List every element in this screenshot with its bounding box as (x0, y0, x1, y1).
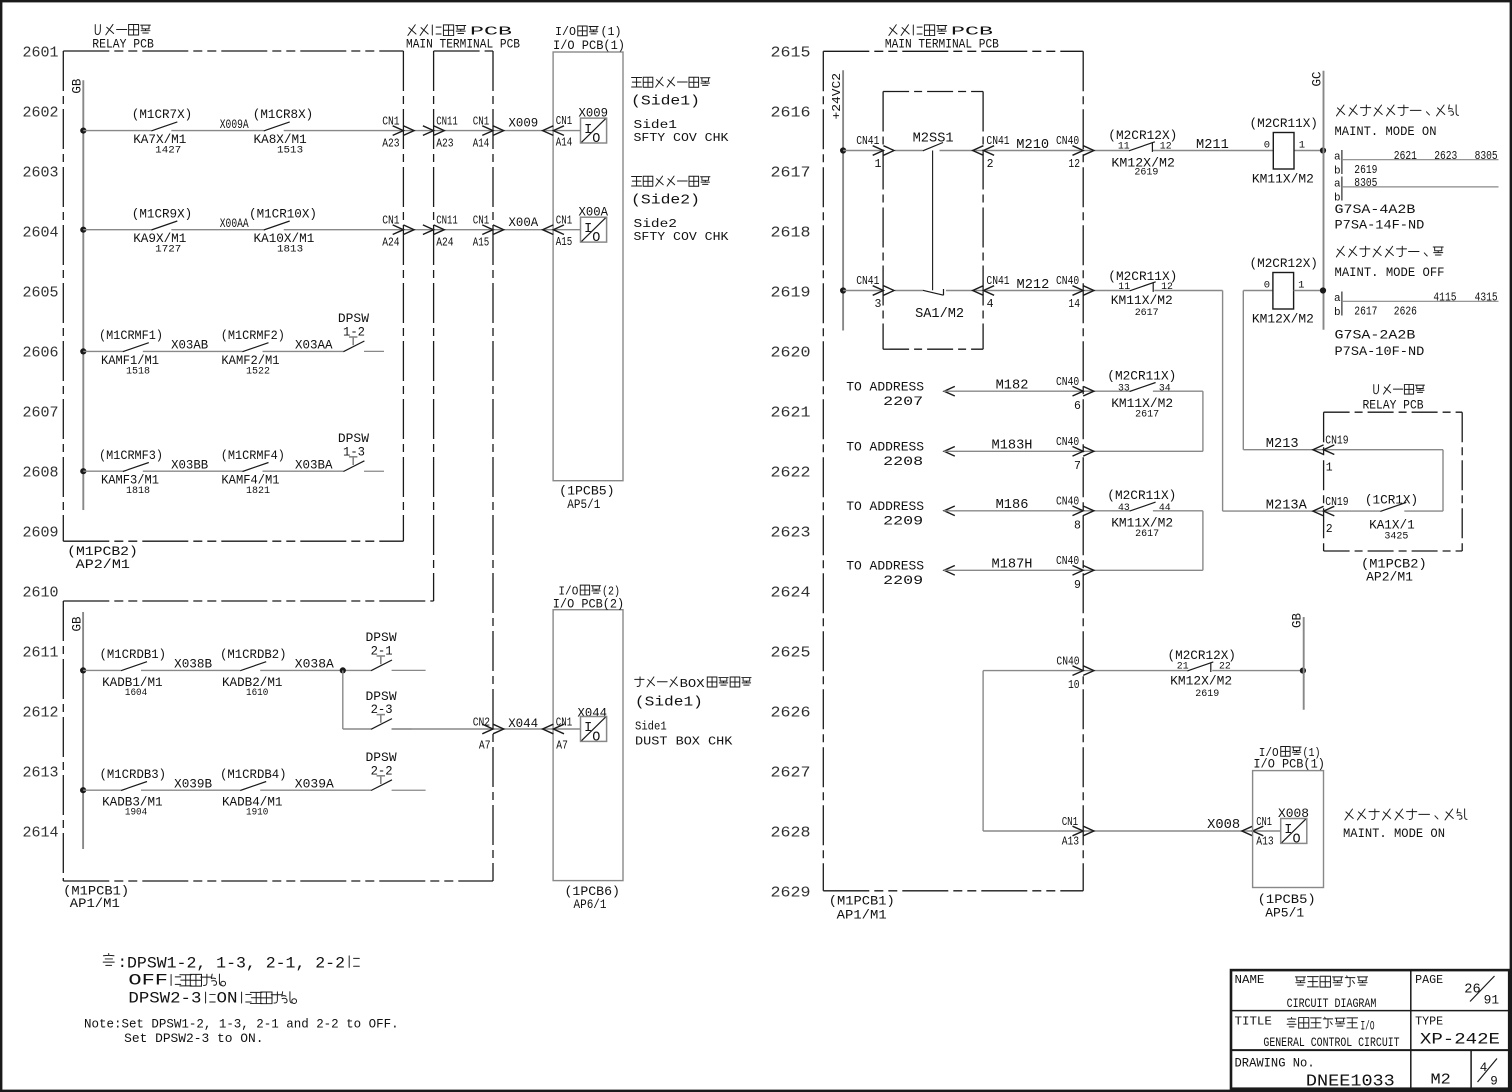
ground bus GC (1311, 71, 1325, 330)
svg-text:(1CR1X): (1CR1X) (1365, 493, 1418, 508)
relay contact KADB1/M1 (M1CRDB1) (100, 647, 167, 699)
svg-text:2613: 2613 (23, 765, 59, 782)
svg-text:1910: 1910 (246, 807, 268, 819)
svg-text:P7SA-10F-ND: P7SA-10F-ND (1335, 344, 1425, 359)
annotation TO ADDRESS 2208 (846, 440, 924, 469)
svg-text:0: 0 (1264, 140, 1270, 152)
wire net row F (83, 789, 371, 791)
svg-text:CN2: CN2 (473, 717, 490, 730)
annotation safety cover check Side2 (631, 176, 729, 244)
annotation maintenance mode on (1335, 105, 1459, 139)
svg-text:10: 10 (1068, 679, 1080, 692)
svg-text:4: 4 (1480, 1061, 1488, 1075)
svg-text:KM12X/M2: KM12X/M2 (1170, 673, 1232, 688)
ground bus GB right (1291, 612, 1305, 709)
svg-text:2621: 2621 (771, 405, 811, 422)
svg-text:Side1: Side1 (634, 118, 678, 132)
svg-text:GENERAL CONTROL CIRCUIT: GENERAL CONTROL CIRCUIT (1263, 1035, 1399, 1050)
svg-text:X00A: X00A (509, 215, 539, 230)
svg-text:2602: 2602 (23, 105, 59, 122)
svg-text:CN1: CN1 (473, 115, 490, 128)
connector CN41-4 (973, 275, 1010, 311)
I/O module X00A (579, 205, 609, 246)
svg-text:(M1CRDB3): (M1CRDB3) (100, 767, 167, 782)
relay contact KA7X/M1 (M1CR7X) (132, 107, 192, 156)
svg-text:b: b (1334, 307, 1341, 319)
connector CN2-A7 (473, 717, 504, 753)
svg-text:O: O (592, 730, 600, 745)
svg-text:X03AA: X03AA (295, 338, 333, 353)
svg-text:CN40: CN40 (1056, 655, 1079, 668)
svg-text:GC: GC (1311, 71, 1325, 86)
relay contact KM11X/M2 pins 11-12 (M2CR11X) (1108, 269, 1177, 319)
I/O module X044 (578, 706, 608, 746)
connector CN1 into I/O PCB row A (543, 115, 573, 150)
svg-text:(M1CR9X): (M1CR9X) (132, 206, 192, 221)
svg-text:2617: 2617 (771, 165, 811, 182)
svg-text:a: a (1334, 178, 1341, 190)
row scale numbers 2601-2614 (23, 45, 59, 842)
svg-text:(1): (1) (601, 25, 622, 39)
svg-text:2209: 2209 (883, 573, 923, 588)
svg-text:2626: 2626 (771, 705, 811, 722)
svg-text:2603: 2603 (23, 165, 59, 182)
svg-text:GB: GB (1291, 612, 1305, 628)
svg-text:G7SA-4A2B: G7SA-4A2B (1335, 202, 1416, 217)
svg-text:(M1CRMF1): (M1CRMF1) (99, 328, 163, 343)
I/O PCB(1) board box left (553, 25, 625, 512)
svg-text:CN40: CN40 (1056, 436, 1079, 449)
svg-text:M213: M213 (1266, 437, 1299, 452)
svg-text:A23: A23 (436, 137, 453, 150)
wire M182 to address 2207 (944, 386, 1203, 396)
annotation safety cover check Side1 (631, 77, 729, 145)
annotation dust box check (635, 677, 751, 748)
svg-text:X03BB: X03BB (171, 457, 208, 472)
wire M213A net (1223, 510, 1443, 512)
svg-text:CN41: CN41 (986, 135, 1009, 148)
svg-text:MAIN TERMINAL PCB: MAIN TERMINAL PCB (885, 38, 999, 52)
svg-text:A23: A23 (382, 137, 399, 150)
wire X00AA net segments (83, 229, 580, 231)
svg-text:2208: 2208 (883, 454, 923, 469)
connector CN40-14 (1056, 275, 1094, 311)
svg-text:AP6/1: AP6/1 (574, 897, 607, 912)
wire X008 net (983, 830, 1281, 832)
svg-text:AP1/M1: AP1/M1 (70, 896, 120, 911)
svg-text:I/O PCB(1): I/O PCB(1) (553, 39, 625, 53)
I/O module X009 (579, 106, 609, 147)
relay contact KA8X/M1 (M1CR8X) (253, 107, 313, 156)
relay part number G7SA-4A2B (1335, 202, 1425, 233)
svg-text:CN41: CN41 (856, 135, 879, 148)
wire M187H to address 2209 (944, 566, 1203, 576)
svg-text:DRAWING No.: DRAWING No. (1235, 1056, 1315, 1070)
selector switch M2SS1 blade (913, 132, 954, 291)
wire M212 net row 2619 (843, 291, 1223, 512)
svg-text:I: I (584, 123, 592, 138)
svg-text:(M1CR10X): (M1CR10X) (249, 206, 317, 221)
svg-text:TO ADDRESS: TO ADDRESS (846, 559, 924, 574)
node GB junction right (1300, 668, 1306, 674)
svg-text:P7SA-14F-ND: P7SA-14F-ND (1335, 217, 1425, 232)
svg-text:O: O (1293, 832, 1301, 847)
wire link address rows 3-4 (1202, 511, 1204, 571)
node GC junction row 2617 (1320, 147, 1326, 153)
svg-text:8305: 8305 (1354, 176, 1377, 190)
svg-text:M186: M186 (996, 498, 1029, 513)
svg-text:(M1CRDB1): (M1CRDB1) (100, 647, 167, 662)
svg-text:CN19: CN19 (1325, 434, 1348, 447)
svg-text:(M2CR11X): (M2CR11X) (1107, 488, 1176, 503)
svg-text:3: 3 (875, 298, 882, 311)
svg-text:PCB: PCB (951, 26, 993, 39)
svg-text:2623: 2623 (771, 525, 811, 542)
svg-text:A7: A7 (556, 739, 568, 752)
svg-text:G7SA-2A2B: G7SA-2A2B (1335, 328, 1416, 343)
svg-text:CN40: CN40 (1056, 376, 1079, 389)
svg-text:1818: 1818 (126, 485, 150, 497)
wire M213 net (1243, 450, 1443, 511)
svg-text:CN40: CN40 (1056, 555, 1079, 568)
svg-text:Note:Set DPSW1-2, 1-3, 2-1 and: Note:Set DPSW1-2, 1-3, 2-1 and 2-2 to OF… (84, 1017, 399, 1031)
svg-text:KM11X/M2: KM11X/M2 (1252, 172, 1314, 187)
svg-text:CN40: CN40 (1056, 496, 1079, 509)
svg-text:I/O: I/O (555, 25, 576, 39)
note text english (84, 1017, 399, 1046)
relay contact KA10X/M1 (M1CR10X) (249, 206, 317, 255)
svg-text:M213A: M213A (1266, 499, 1308, 514)
node GB junction row X009 (80, 128, 86, 134)
svg-text:2616: 2616 (771, 105, 811, 122)
svg-text:2628: 2628 (771, 825, 811, 842)
svg-text:4315: 4315 (1475, 290, 1498, 304)
svg-text:DUST BOX CHK: DUST BOX CHK (635, 734, 733, 748)
svg-text:2207: 2207 (883, 394, 923, 409)
svg-text:(M1CRDB4): (M1CRDB4) (220, 767, 287, 782)
svg-text:1522: 1522 (246, 365, 270, 377)
svg-text:2625: 2625 (771, 645, 811, 662)
svg-text:SFTY COV CHK: SFTY COV CHK (634, 230, 730, 244)
svg-text:1513: 1513 (277, 145, 303, 157)
svg-text:AP1/M1: AP1/M1 (837, 908, 887, 923)
connector CN40-10 (1056, 655, 1094, 692)
svg-text:1610: 1610 (246, 687, 268, 699)
node +24VC2 junction row 2619 (840, 287, 846, 293)
annotation maintenance mode on lower (1343, 809, 1467, 841)
svg-text:O: O (592, 132, 600, 147)
svg-text:KM11X/M2: KM11X/M2 (1111, 293, 1173, 308)
svg-text:A13: A13 (1062, 836, 1079, 849)
svg-text:(Side1): (Side1) (635, 696, 703, 711)
svg-text:SFTY COV CHK: SFTY COV CHK (634, 131, 730, 145)
svg-text:6: 6 (1074, 400, 1081, 413)
svg-text:2609: 2609 (23, 525, 59, 542)
svg-text:+24VC2: +24VC2 (830, 73, 844, 120)
svg-text:4115: 4115 (1433, 290, 1456, 304)
svg-text:2618: 2618 (771, 225, 811, 242)
relay contact KA1X/1 (1CR1X) (1365, 493, 1418, 543)
connector CN1-A13 (terminal pcb) (1062, 816, 1094, 849)
svg-text:(2): (2) (602, 585, 620, 598)
cross reference table mode off (1334, 290, 1499, 318)
svg-text:2607: 2607 (23, 405, 59, 422)
svg-text:AP2/M1: AP2/M1 (76, 557, 130, 572)
svg-text:I/O PCB(2): I/O PCB(2) (553, 598, 624, 612)
annotation TO ADDRESS 2209 (846, 559, 924, 588)
connector CN1-A7 into I/O PCB(2) (543, 717, 573, 753)
svg-text:21: 21 (1177, 661, 1189, 673)
svg-text:X044: X044 (578, 706, 608, 721)
relay contact KAMF3/M1 (M1CRMF3) (99, 448, 163, 497)
svg-text:1604: 1604 (125, 687, 147, 699)
svg-text:1: 1 (875, 158, 882, 171)
svg-text:2617: 2617 (1135, 409, 1159, 421)
svg-text:8: 8 (1074, 520, 1081, 533)
svg-text:12: 12 (1161, 281, 1173, 293)
connector CN1 into I/O PCB row B (543, 214, 573, 249)
connector CN40-7 (1056, 436, 1094, 473)
connector CN19-2 (1313, 496, 1349, 536)
wire M186 to address 2209 (944, 506, 1203, 516)
svg-text:GB: GB (71, 78, 85, 94)
svg-text:M2: M2 (1431, 1071, 1451, 1088)
svg-text:PAGE: PAGE (1415, 973, 1443, 987)
svg-text:(M1CRMF4): (M1CRMF4) (221, 448, 285, 463)
PCB boundary MAIN TERMINAL PCB right box (823, 25, 1083, 923)
svg-text:2619: 2619 (771, 285, 811, 302)
svg-text:MAINT. MODE ON: MAINT. MODE ON (1343, 826, 1445, 841)
svg-text:CN1: CN1 (556, 115, 572, 128)
connector CN1-A14/A15 row B (473, 215, 504, 250)
svg-text:2617: 2617 (1354, 305, 1377, 319)
svg-text:CN1: CN1 (473, 215, 490, 228)
svg-text:12: 12 (1068, 158, 1080, 171)
svg-text:AP5/1: AP5/1 (567, 497, 600, 512)
svg-text:M187H: M187H (992, 558, 1033, 573)
svg-text:CN11: CN11 (436, 215, 458, 228)
svg-text:44: 44 (1159, 502, 1171, 514)
connector CN40-9 (1056, 555, 1094, 592)
connector CN1-A13 into I/O PCB(1) (1242, 816, 1274, 849)
svg-text:26: 26 (1464, 983, 1480, 998)
I/O PCB(1) board box right (1253, 746, 1325, 920)
svg-text:TITLE: TITLE (1235, 1015, 1272, 1029)
svg-text:TO ADDRESS: TO ADDRESS (846, 499, 924, 514)
svg-text:TO ADDRESS: TO ADDRESS (846, 380, 924, 395)
relay contact KADB2/M1 (M1CRDB2) (220, 647, 287, 699)
svg-text:2623: 2623 (1434, 149, 1457, 163)
svg-text:91: 91 (1484, 993, 1500, 1007)
svg-text:RELAY PCB: RELAY PCB (92, 38, 154, 52)
connector CN1-A23/A24 row B (382, 215, 414, 250)
svg-text:2605: 2605 (23, 285, 59, 302)
connector CN41-1 (856, 135, 894, 171)
wire X044 net (343, 728, 581, 730)
svg-text:MAINT. MODE ON: MAINT. MODE ON (1335, 124, 1437, 139)
connector CN40-6 (1056, 376, 1094, 413)
connector CN41-2 (973, 135, 1010, 171)
svg-text:(M1CRDB2): (M1CRDB2) (220, 647, 287, 662)
node GB junction row E (80, 667, 86, 673)
svg-text:I: I (584, 721, 592, 736)
svg-text:9: 9 (1074, 579, 1081, 592)
svg-text:22: 22 (1219, 661, 1231, 673)
annotation TO ADDRESS 2209 (846, 499, 924, 528)
node +24VC2 junction row 2617 (840, 147, 846, 153)
svg-text:8305: 8305 (1475, 149, 1498, 163)
svg-text:A24: A24 (382, 237, 399, 250)
svg-text:I: I (584, 222, 592, 237)
PCB boundary RELAY PCB (M1PCB2) upper left box (63, 24, 403, 571)
svg-text:1813: 1813 (277, 244, 303, 256)
svg-text:1821: 1821 (246, 485, 270, 497)
relay contact KAMF4/M1 (M1CRMF4) (221, 448, 285, 497)
wire X009A net segments (83, 130, 580, 132)
svg-text:X009: X009 (509, 116, 539, 131)
svg-text:CN1: CN1 (556, 717, 572, 730)
svg-text:CIRCUIT DIAGRAM: CIRCUIT DIAGRAM (1287, 996, 1377, 1011)
ground bus GB lower left (70, 612, 84, 849)
title block (1231, 970, 1509, 1090)
wire KM12X contact row net (983, 670, 1303, 672)
svg-text:2606: 2606 (23, 345, 59, 362)
cross reference table mode on (1334, 149, 1499, 205)
svg-text:Set DPSW2-3 to ON.: Set DPSW2-3 to ON. (124, 1032, 263, 1046)
svg-text:A14: A14 (473, 137, 490, 150)
svg-text:M182: M182 (996, 379, 1029, 394)
node GB junction row X00A (80, 227, 86, 233)
svg-text:2627: 2627 (771, 765, 811, 782)
svg-text:M2SS1: M2SS1 (913, 132, 954, 147)
connector CN41-3 (856, 275, 894, 311)
svg-text:XP-242E: XP-242E (1420, 1031, 1500, 1049)
svg-text:A24: A24 (436, 237, 453, 250)
svg-text:CN1: CN1 (556, 214, 572, 227)
svg-text:a: a (1334, 152, 1341, 164)
svg-text:X03BA: X03BA (295, 457, 333, 472)
svg-text:CN41: CN41 (986, 275, 1009, 288)
svg-text:MAIN TERMINAL PCB: MAIN TERMINAL PCB (406, 38, 520, 52)
svg-text:CN11: CN11 (436, 115, 458, 128)
I/O module X008 (1278, 806, 1309, 847)
connector CN1-A14/A15 row A (473, 115, 504, 150)
power bus +24VC2 (830, 70, 844, 330)
svg-text:9: 9 (1490, 1074, 1498, 1088)
svg-text:4: 4 (987, 298, 994, 311)
DIP switch DPSW2-3 (366, 689, 412, 730)
node GB junction row D (80, 468, 86, 474)
svg-text:X044: X044 (508, 716, 538, 731)
svg-text:X038A: X038A (295, 657, 334, 672)
svg-text:(M2CR11X): (M2CR11X) (1107, 369, 1176, 384)
svg-text:2615: 2615 (771, 45, 811, 62)
svg-text:M212: M212 (1017, 278, 1050, 293)
relay contact KA9X/M1 (M1CR9X) (132, 206, 192, 255)
svg-text:MAINT. MODE OFF: MAINT. MODE OFF (1335, 265, 1445, 280)
svg-text:2611: 2611 (23, 645, 59, 662)
svg-text:a: a (1334, 293, 1341, 305)
svg-text:b: b (1334, 166, 1341, 178)
svg-text:2621: 2621 (1394, 149, 1417, 163)
svg-text:1427: 1427 (155, 145, 181, 157)
svg-text:CN40: CN40 (1056, 275, 1079, 288)
svg-text:1: 1 (1299, 140, 1305, 152)
selector switch box M2SS1/SA1 boundary (883, 92, 983, 350)
svg-text:X03AB: X03AB (171, 338, 208, 353)
svg-text:2601: 2601 (23, 45, 59, 62)
wire M210 net row 2617 (843, 150, 1323, 152)
svg-text:33: 33 (1118, 382, 1130, 394)
relay coil KM12X/M2 (M2CR12X) (1243, 256, 1323, 327)
svg-text:PCB: PCB (470, 26, 512, 39)
svg-text:(M1CR8X): (M1CR8X) (253, 107, 313, 122)
svg-text:12: 12 (1160, 140, 1172, 152)
svg-text:2: 2 (1326, 523, 1333, 536)
svg-text:2624: 2624 (771, 585, 811, 602)
wire net row E (83, 669, 371, 671)
note text japanese (103, 954, 359, 1008)
svg-text:TO ADDRESS: TO ADDRESS (846, 440, 924, 455)
svg-text:TYPE: TYPE (1415, 1015, 1443, 1029)
svg-text:AP5/1: AP5/1 (1265, 906, 1304, 921)
svg-text:(M2CR11X): (M2CR11X) (1250, 116, 1318, 131)
relay contact KM12X/M2 pins 11-12 (M2CR12X) (1108, 128, 1177, 179)
svg-text:2629: 2629 (771, 885, 811, 902)
node GC junction row 2619 (1320, 287, 1326, 293)
svg-text:1727: 1727 (155, 244, 181, 256)
svg-text:DNEE1033: DNEE1033 (1306, 1071, 1395, 1090)
node X038A junction (340, 667, 346, 673)
I/O PCB(2) board box left (553, 585, 624, 912)
svg-text:DPSW1-2, 1-3, 2-1, 2-2: DPSW1-2, 1-3, 2-1, 2-2 (127, 954, 345, 972)
relay part number G7SA-2A2B (1335, 328, 1425, 360)
svg-text:A15: A15 (473, 237, 490, 250)
svg-text:2612: 2612 (23, 705, 59, 722)
connector CN40-8 (1056, 496, 1094, 533)
wire riser CN40-10 to CN1-A13 (982, 671, 984, 831)
svg-text:2610: 2610 (23, 585, 59, 602)
wire link address rows 1-2 (1202, 391, 1204, 451)
svg-text:X009A: X009A (220, 117, 249, 132)
svg-text:2617: 2617 (1135, 307, 1159, 319)
svg-text:2: 2 (987, 158, 994, 171)
svg-text:2617: 2617 (1135, 528, 1159, 540)
row scale numbers 2615-2629 (771, 45, 811, 902)
connector CN40-12 (1056, 135, 1094, 171)
svg-text:2614: 2614 (23, 825, 59, 842)
svg-text:Side1: Side1 (635, 719, 667, 733)
svg-text:2619: 2619 (1195, 688, 1219, 700)
svg-text:(Side1): (Side1) (631, 95, 700, 110)
svg-text:3425: 3425 (1384, 531, 1408, 543)
svg-text:14: 14 (1068, 298, 1080, 311)
svg-text:2622: 2622 (771, 465, 811, 482)
PCB boundary M1PCB1 lower left box (63, 601, 493, 911)
svg-text:2619: 2619 (1134, 167, 1158, 179)
relay contact KAMF2/M1 (M1CRMF2) (221, 328, 285, 377)
svg-text:O: O (592, 231, 600, 246)
svg-text:NAME: NAME (1235, 973, 1265, 987)
svg-text:CN40: CN40 (1056, 135, 1079, 148)
svg-text:Side2: Side2 (634, 217, 678, 231)
relay contact KADB3/M1 (M1CRDB3) (100, 767, 167, 819)
wire net row C (83, 350, 343, 352)
svg-text:(M1PCB1): (M1PCB1) (829, 894, 895, 909)
svg-text:X00AA: X00AA (220, 216, 249, 231)
svg-text:2604: 2604 (23, 225, 59, 242)
svg-text:11: 11 (1118, 281, 1130, 293)
